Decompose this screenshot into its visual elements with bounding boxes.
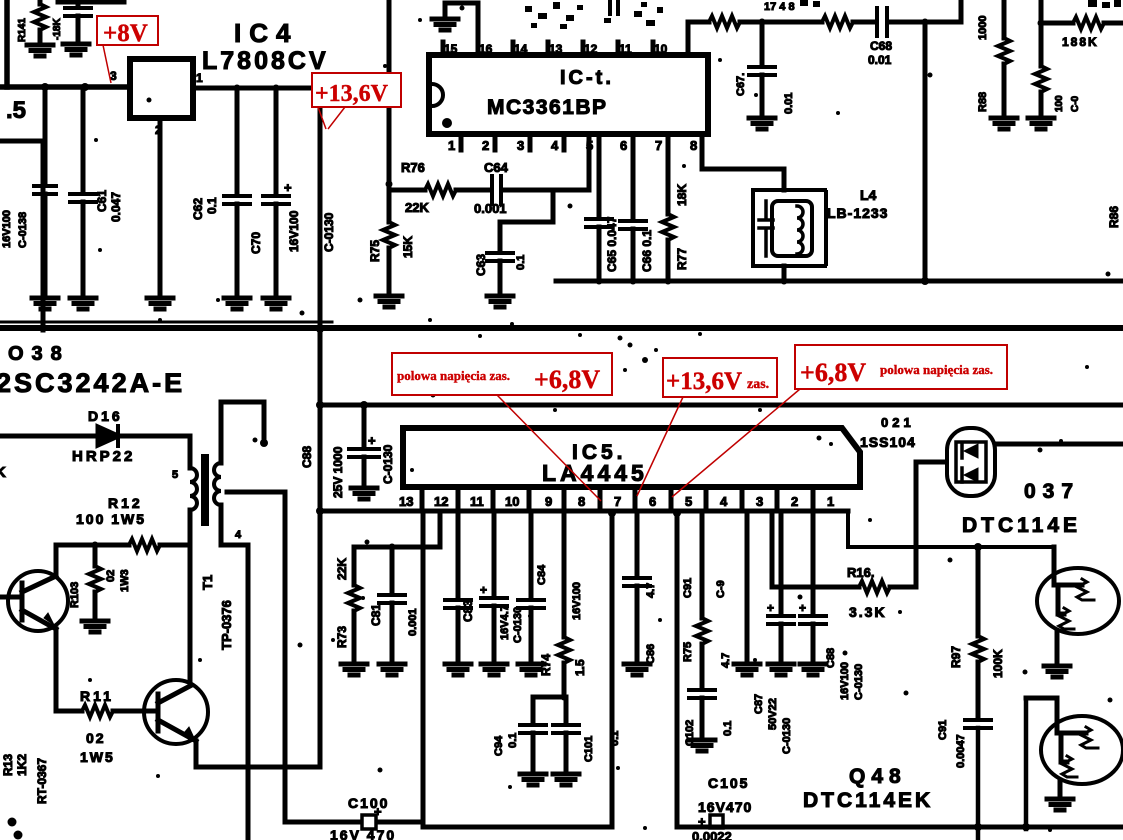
wire long vertical x677 — [675, 511, 680, 827]
svg-text:R141: R141 — [17, 18, 28, 42]
svg-text:+13,6V: +13,6V — [315, 81, 389, 107]
svg-text:C-0: C-0 — [1070, 95, 1081, 112]
svg-text:0.001: 0.001 — [407, 608, 419, 636]
notch — [432, 84, 443, 106]
svg-text:-18K: -18K — [52, 18, 63, 40]
svg-text:MC3361BP: MC3361BP — [487, 96, 608, 119]
svg-text:9: 9 — [545, 494, 552, 509]
capacitor above IC — [610, 1, 618, 14]
svg-text:1W3: 1W3 — [119, 569, 131, 592]
wire vertical x925 — [923, 22, 928, 281]
svg-text:R86: R86 — [1107, 206, 1121, 228]
svg-text:4.7: 4.7 — [645, 583, 657, 598]
ground — [32, 298, 58, 309]
svg-text:C81: C81 — [369, 604, 383, 626]
svg-text:+: + — [368, 433, 376, 448]
annotation pointer — [497, 395, 601, 501]
pin 9 stub — [686, 22, 691, 55]
svg-text:2: 2 — [791, 494, 798, 509]
resistor R141 — [38, 0, 43, 4]
svg-text:LA4445: LA4445 — [542, 460, 648, 486]
svg-text:0.01: 0.01 — [783, 93, 795, 114]
svg-text:IC4: IC4 — [234, 18, 298, 48]
wire regulator output to +13.6V node — [193, 86, 320, 91]
resistor R16 loop — [770, 511, 775, 587]
op-amp IC5 LA4445 body — [403, 428, 860, 487]
svg-text:0.1: 0.1 — [507, 733, 519, 748]
svg-text:O38: O38 — [8, 343, 70, 365]
svg-text:02: 02 — [86, 730, 106, 746]
capacitor C87 column — [779, 511, 784, 614]
svg-text:0.1: 0.1 — [515, 255, 527, 270]
svg-text:C88: C88 — [300, 446, 314, 468]
junction — [81, 83, 89, 91]
svg-text:7: 7 — [655, 138, 662, 153]
ground — [147, 298, 173, 309]
svg-text:C70: C70 — [249, 232, 263, 254]
svg-text:11: 11 — [619, 42, 632, 56]
svg-text:10: 10 — [505, 494, 519, 509]
svg-text:3.3K: 3.3K — [849, 604, 887, 620]
wire supply rail above IC5 — [320, 403, 1123, 408]
svg-text:22K: 22K — [335, 558, 349, 580]
ground — [749, 118, 775, 129]
svg-text:R88: R88 — [977, 92, 989, 112]
wire collector up — [54, 545, 59, 576]
wire pin12 column jog — [438, 511, 443, 547]
annotation pointer — [318, 107, 345, 129]
svg-text:C66 0.1: C66 0.1 — [640, 230, 654, 272]
svg-text:16: 16 — [479, 42, 493, 56]
svg-text:R97: R97 — [949, 646, 963, 668]
svg-text:C-0138: C-0138 — [17, 212, 29, 248]
wire pin16 loop to ground — [445, 3, 478, 30]
wire pin9 to R78 — [688, 20, 709, 25]
svg-text:C61: C61 — [95, 190, 109, 212]
svg-text:R103: R103 — [69, 582, 81, 608]
svg-text:K: K — [0, 464, 6, 481]
svg-text:15K: 15K — [401, 236, 415, 258]
svg-text:021: 021 — [881, 415, 915, 430]
capacitor C-0130 column — [529, 511, 534, 598]
bottom bus left segment — [423, 825, 612, 830]
svg-text:C65 0.047: C65 0.047 — [605, 216, 619, 272]
left border wire — [4, 0, 10, 87]
svg-text:0.1: 0.1 — [722, 721, 734, 736]
svg-text:1: 1 — [827, 494, 834, 509]
svg-text:100K: 100K — [991, 649, 1005, 678]
resistor R97 column — [976, 547, 981, 636]
svg-text:R73: R73 — [335, 626, 349, 648]
svg-text:16V100: 16V100 — [287, 210, 301, 252]
ground — [518, 664, 544, 675]
svg-text:16V100: 16V100 — [1, 210, 13, 248]
transistor Q38 — [8, 571, 68, 631]
svg-text:0.0022: 0.0022 — [692, 829, 732, 840]
svg-text:17 4 8: 17 4 8 — [764, 1, 795, 13]
svg-text:LB-1233: LB-1233 — [827, 205, 888, 221]
ground — [445, 664, 471, 675]
svg-text:T1: T1 — [200, 575, 215, 590]
wire corner up to top edge — [959, 0, 964, 22]
svg-text:D16: D16 — [88, 408, 123, 424]
ground — [1044, 666, 1070, 677]
capacitor C70 — [274, 88, 279, 194]
wire pin13 column long vertical — [421, 511, 426, 827]
svg-text:polowa napięcia zas.: polowa napięcia zas. — [397, 368, 510, 383]
svg-text:C-9: C-9 — [715, 580, 727, 598]
resistor R76 — [425, 184, 456, 196]
capacitor C83 column — [456, 511, 461, 598]
capacitor C65 column — [597, 150, 602, 217]
svg-text:L4: L4 — [860, 187, 877, 203]
wire L4 to bus — [782, 266, 787, 281]
svg-text:13: 13 — [399, 494, 413, 509]
svg-text:C87: C87 — [753, 694, 765, 714]
svg-text:.5: .5 — [6, 97, 26, 124]
svg-text:L7808CV: L7808CV — [202, 47, 329, 75]
svg-text:037: 037 — [1024, 480, 1080, 503]
svg-text:C88: C88 — [825, 648, 837, 668]
resistor R74 column — [562, 511, 567, 637]
svg-text:4: 4 — [235, 529, 242, 541]
svg-text:13: 13 — [549, 42, 563, 56]
bottom bus right segment — [677, 825, 1123, 830]
wire emitter to bus — [196, 741, 320, 767]
ground — [27, 45, 53, 56]
svg-text:R16.: R16. — [847, 565, 874, 580]
short column x747 — [745, 511, 750, 662]
capacitor C? x45 column — [43, 87, 48, 184]
svg-text:R11: R11 — [80, 688, 114, 704]
junction on base wire — [974, 543, 982, 551]
svg-text:1.5: 1.5 — [573, 659, 587, 676]
ground — [553, 774, 579, 785]
wire to diode D16 — [0, 434, 98, 439]
pin 10 stub — [651, 42, 656, 55]
annotation +8V box — [97, 16, 158, 45]
svg-text:0.0047: 0.0047 — [955, 734, 967, 768]
resistor R11 — [82, 705, 113, 717]
ground — [991, 118, 1017, 129]
svg-text:5: 5 — [685, 494, 692, 509]
bottom pin stubs MC3361BP — [461, 134, 668, 150]
resistor chain x1004 — [1002, 0, 1007, 38]
diode D16 — [98, 427, 118, 445]
annotation pointer — [103, 45, 111, 83]
ground — [351, 488, 377, 499]
capacitor C102 — [689, 690, 715, 698]
resistor chain x1041 — [1039, 0, 1044, 66]
ground — [70, 298, 96, 309]
wire to R11 — [56, 709, 82, 714]
resistor R73 — [352, 547, 357, 585]
svg-text:1K2: 1K2 — [15, 754, 29, 776]
svg-text:C83: C83 — [461, 600, 475, 622]
wire emitter down — [54, 629, 59, 711]
svg-text:12: 12 — [584, 42, 598, 56]
wire pin8 to L4 — [702, 134, 784, 190]
ground — [1028, 118, 1054, 129]
node blobs — [8, 818, 17, 827]
svg-text:8: 8 — [578, 494, 585, 509]
transistor Q37 digital — [1052, 547, 1057, 570]
wire top edge tick — [58, 0, 124, 5]
wire pin7 column long vertical — [610, 511, 615, 827]
svg-text:HRP22: HRP22 — [72, 448, 135, 465]
capacitor C100 — [362, 815, 376, 829]
svg-text:18K: 18K — [675, 184, 689, 206]
annotation +6,8V polowa box — [795, 345, 1007, 389]
svg-text:DTC114E: DTC114E — [962, 514, 1081, 537]
svg-text:C94: C94 — [493, 735, 505, 756]
svg-text:16V4.7: 16V4.7 — [499, 605, 511, 640]
ground — [341, 664, 367, 675]
resistor R103 chain — [93, 545, 98, 566]
noise blobs labels above IC — [525, 2, 663, 29]
capacitor C61 — [81, 87, 86, 192]
wire main +8V rail — [0, 84, 130, 90]
wire R76 C64 to pin5 — [389, 188, 425, 193]
svg-text:100 1W5: 100 1W5 — [76, 511, 146, 527]
resistor 18K series — [822, 16, 853, 28]
svg-text:C100: C100 — [348, 795, 389, 811]
svg-text:10: 10 — [654, 42, 668, 56]
wire bus under MC IC — [556, 279, 1123, 284]
transformer secondary winding — [219, 402, 224, 463]
capacitor C88b column — [811, 511, 816, 614]
wire tap vertical — [283, 492, 288, 822]
regulator IC4 L7808CV — [130, 59, 193, 118]
svg-text:22K: 22K — [405, 200, 429, 215]
svg-text:25V 1000: 25V 1000 — [331, 446, 345, 498]
wire to resistor 188K — [1041, 21, 1073, 26]
svg-text:R75: R75 — [368, 240, 382, 262]
inductor winding — [797, 206, 803, 254]
svg-text:16V 470: 16V 470 — [330, 827, 396, 840]
capacitor C63 — [500, 190, 553, 251]
capacitor C62 — [235, 88, 240, 194]
svg-text:C84: C84 — [536, 564, 548, 585]
svg-text:C105: C105 — [708, 775, 749, 791]
svg-text:C64: C64 — [484, 160, 509, 175]
svg-text:C63: C63 — [474, 254, 488, 276]
svg-text:R13: R13 — [1, 754, 15, 776]
svg-text:02: 02 — [105, 570, 117, 582]
annotation pointer — [672, 389, 800, 497]
svg-text:188K: 188K — [1062, 35, 1099, 49]
svg-text:C-0130: C-0130 — [781, 718, 793, 754]
svg-text:+: + — [284, 180, 292, 195]
ground — [487, 296, 513, 307]
wire section divider — [0, 325, 1123, 331]
wire secondary top hook — [221, 402, 264, 440]
svg-text:6: 6 — [649, 494, 656, 509]
svg-text:100: 100 — [1054, 95, 1065, 112]
svg-text:5: 5 — [172, 469, 178, 481]
wire regulator pin2 to ground — [158, 118, 163, 296]
ground — [63, 44, 89, 55]
ground — [224, 298, 250, 309]
svg-text:+: + — [799, 601, 806, 615]
svg-text:C68: C68 — [870, 39, 892, 53]
capacitor C91b — [965, 720, 991, 728]
svg-text:1SS104: 1SS104 — [860, 434, 916, 450]
ground — [379, 664, 405, 675]
svg-text:IC-t.: IC-t. — [560, 67, 614, 89]
svg-text:R76: R76 — [401, 160, 425, 175]
pin cell ticks — [422, 487, 813, 511]
resistor R75 column — [387, 0, 392, 222]
svg-text:C91: C91 — [937, 720, 949, 740]
svg-text:4.7: 4.7 — [720, 653, 732, 668]
svg-text:14: 14 — [514, 42, 528, 56]
transformer T1 primary winding — [188, 436, 193, 468]
resistor R77 column — [666, 150, 671, 214]
wire corner to Q37 — [848, 511, 1054, 547]
svg-text:6: 6 — [620, 138, 627, 153]
ground — [768, 664, 794, 675]
capacitor C66 column — [631, 150, 636, 219]
svg-text:R75: R75 — [682, 642, 694, 662]
ground — [263, 298, 289, 309]
svg-text:DTC114EK: DTC114EK — [803, 789, 933, 812]
svg-text:50V22: 50V22 — [767, 698, 779, 730]
svg-text:TP-0376: TP-0376 — [219, 600, 234, 650]
coil L4 shield box — [753, 190, 826, 266]
svg-text:15: 15 — [444, 42, 458, 56]
svg-text:1W5: 1W5 — [80, 749, 115, 765]
capacitor C85 — [362, 405, 367, 447]
svg-text:+: + — [698, 814, 706, 829]
coil L4 inner box — [772, 201, 812, 256]
svg-text:16V100: 16V100 — [571, 582, 583, 620]
svg-text:3: 3 — [517, 138, 524, 153]
svg-text:2: 2 — [482, 138, 489, 153]
svg-text:4: 4 — [720, 494, 728, 509]
svg-text:+13,6V: +13,6V — [666, 368, 742, 395]
annotation +13,6V zas box — [663, 358, 777, 397]
svg-text:C-0130: C-0130 — [853, 664, 865, 700]
svg-text:0.01: 0.01 — [868, 53, 892, 67]
svg-text:11: 11 — [470, 494, 484, 509]
wire R12 row — [56, 543, 129, 548]
pin row line — [320, 509, 848, 514]
svg-text:+6,8V: +6,8V — [534, 365, 600, 394]
annotation pointer — [637, 397, 683, 496]
svg-text:0.1: 0.1 — [205, 197, 219, 214]
junction — [273, 85, 280, 92]
ground — [624, 664, 650, 675]
wire C100 spur — [285, 820, 360, 825]
svg-text:12: 12 — [434, 494, 448, 509]
svg-text:0.047: 0.047 — [109, 192, 123, 222]
svg-text:R74: R74 — [539, 654, 553, 676]
svg-text:16V470: 16V470 — [698, 799, 752, 815]
svg-text:16V100: 16V100 — [839, 662, 851, 700]
svg-text:RT-0367: RT-0367 — [35, 758, 49, 804]
ground — [689, 740, 715, 751]
wire D21 to right — [995, 442, 1123, 447]
capacitor C81 — [390, 547, 395, 593]
transistor Q39 — [144, 680, 208, 744]
svg-text:+: + — [480, 583, 487, 597]
annotation +13,6V box — [312, 73, 401, 107]
wire secondary tap — [227, 490, 285, 495]
svg-text:1: 1 — [196, 71, 203, 85]
capacitor C? top-left — [76, 0, 81, 6]
resistor R78 — [709, 16, 740, 28]
svg-text:C86: C86 — [645, 644, 657, 664]
diode pack D21 1SS104 — [947, 428, 995, 496]
capacitor C64 series — [492, 176, 501, 204]
capacitor 16V4.7 column — [492, 511, 497, 596]
capacitor C101 — [564, 697, 569, 723]
svg-text:C62: C62 — [191, 198, 205, 220]
ground — [1047, 799, 1073, 810]
annotation polowa napiecia zas +6,8V box — [392, 353, 612, 395]
wire left vertical — [41, 141, 46, 330]
op-amp IC MC3361BP body — [429, 55, 708, 134]
svg-text:1000: 1000 — [977, 16, 989, 40]
svg-text:+: + — [767, 601, 774, 615]
svg-text:0.001: 0.001 — [474, 201, 507, 216]
wire left stub — [0, 139, 43, 144]
ground — [520, 774, 546, 785]
svg-text:1: 1 — [448, 138, 455, 153]
junction — [41, 83, 49, 91]
capacitor C94 — [531, 697, 536, 723]
wire long +13.6V vertical — [318, 88, 323, 767]
capacitor inside L4 — [759, 201, 773, 256]
svg-text:Q48: Q48 — [849, 765, 907, 788]
capacitor C68 series — [877, 8, 887, 36]
capacitor C67 column — [759, 19, 766, 26]
ground — [376, 296, 402, 307]
svg-text:zas.: zas. — [747, 377, 769, 392]
svg-text:8: 8 — [690, 138, 697, 153]
pin 16 stub — [476, 30, 481, 55]
svg-text:C101: C101 — [583, 736, 595, 762]
svg-text:+6,8V: +6,8V — [800, 358, 866, 387]
junction — [234, 85, 241, 92]
svg-text:C91: C91 — [682, 578, 694, 598]
ground — [734, 664, 760, 675]
svg-text:C-0130: C-0130 — [322, 212, 336, 252]
svg-text:+8V: +8V — [103, 20, 148, 47]
ground — [800, 664, 826, 675]
svg-text:C102: C102 — [684, 720, 696, 746]
resistor R75b column — [700, 511, 705, 618]
capacitor C86 column — [635, 511, 640, 576]
transistor Q36 digital — [1026, 698, 1057, 716]
svg-text:C-0130: C-0130 — [381, 444, 395, 484]
pin 11 stub — [616, 42, 621, 55]
pin 13 stub — [546, 42, 551, 55]
transformer core — [201, 458, 209, 522]
ground — [82, 621, 108, 632]
svg-text:7: 7 — [614, 494, 621, 509]
svg-text:R12: R12 — [108, 495, 143, 511]
junction — [922, 19, 929, 26]
svg-text:3: 3 — [756, 494, 763, 509]
pin 12 stub — [581, 42, 586, 55]
svg-text:4: 4 — [551, 138, 559, 153]
svg-text:2SC3242A-E: 2SC3242A-E — [0, 368, 185, 398]
wire jog to C94 — [533, 695, 564, 700]
svg-text:polowa napięcia zas.: polowa napięcia zas. — [880, 362, 993, 377]
pin 14 stub — [511, 42, 516, 55]
